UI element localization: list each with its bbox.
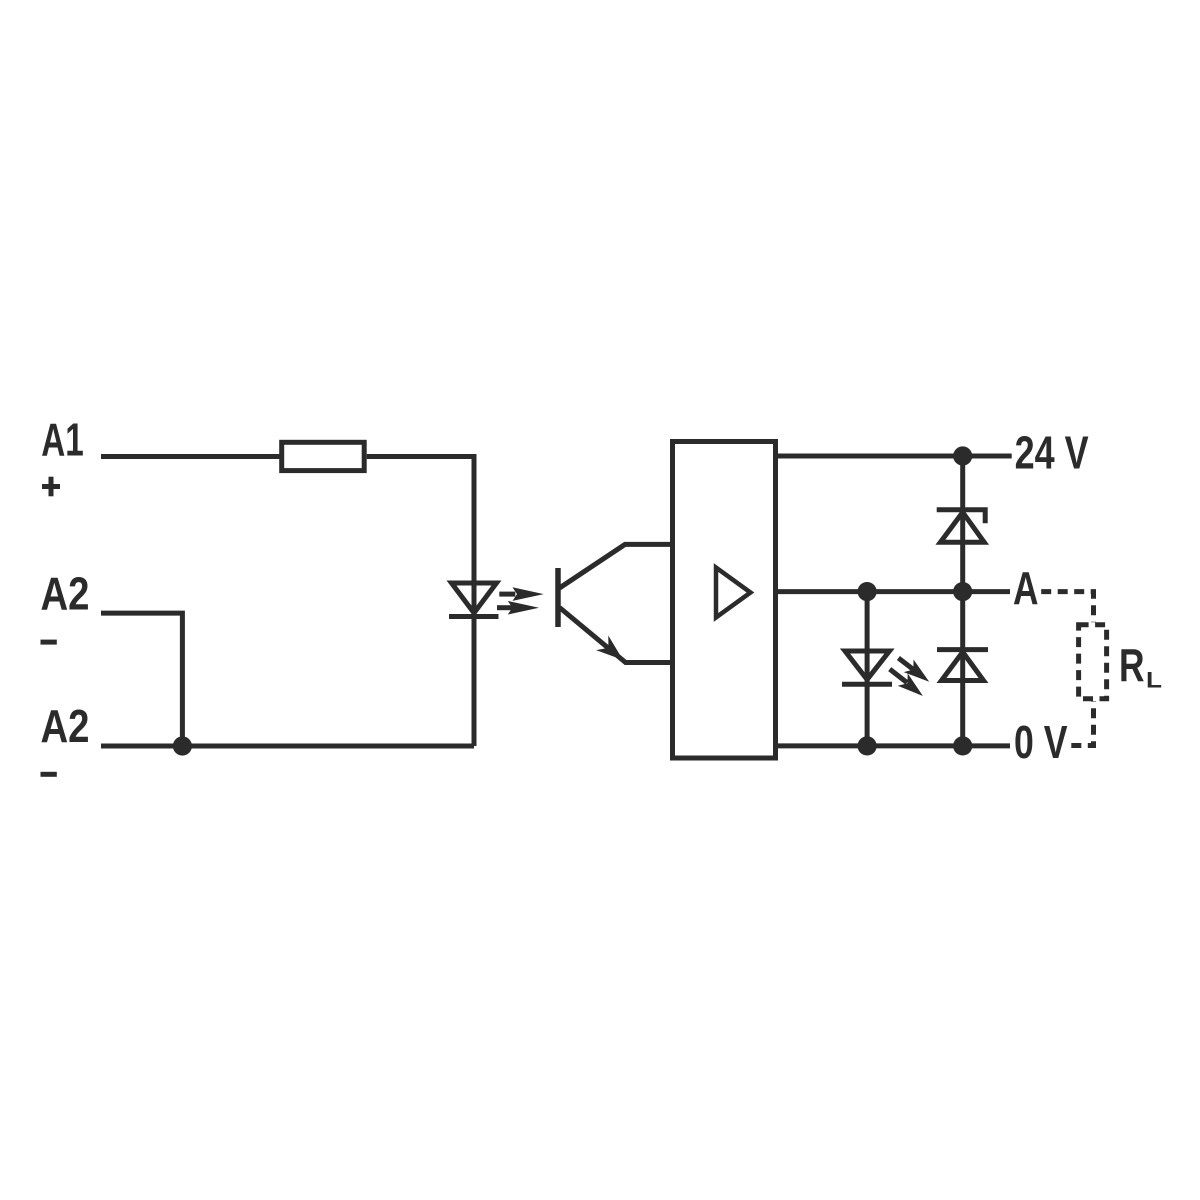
wire A2 upper to junction [101,613,182,746]
status LED D4 triangle [845,651,890,680]
svg-text:A2: A2 [41,700,90,752]
svg-text:0 V: 0 V [1014,716,1068,768]
resistor R1 (input series) [282,442,365,470]
status LED light arrow 1 [898,658,929,682]
wire 24V rail [778,454,1012,459]
phototransistor Q1 emitter with arrow [560,608,671,663]
wire zener column 24V to 0V [960,456,965,746]
polarity mark − (A2 upper) [41,640,57,645]
dashed wire load RL to 0V [1069,701,1094,745]
status LED light arrow 2 [890,669,923,696]
zener diode D2 triangle [940,512,984,542]
optocoupler LED D1 triangle [452,583,497,613]
label RL [1119,639,1162,692]
zener diode D2 cathode bar with hook [937,510,986,524]
svg-text:24 V: 24 V [1015,426,1089,478]
junction A2 [173,736,192,755]
status LED D4 cathode bar [842,682,892,687]
phototransistor Q1 base bar [555,568,561,627]
dashed wire A to load RL [1041,592,1093,623]
phototransistor Q1 collector [560,544,671,588]
svg-text:A2: A2 [41,568,90,620]
junction dot A/LED column [858,582,877,601]
light arrow 2 [497,601,539,615]
junction dot 24V/zener [953,446,972,465]
svg-text:R: R [1119,639,1145,691]
amplifier triangle symbol [716,568,751,618]
optocoupler LED D1 cathode bar [449,614,499,619]
junction dot A/zener column [953,582,972,601]
polarity mark + (A1) [42,477,60,497]
diode D3 triangle [942,652,984,681]
load resistor RL (dashed outline) [1079,625,1107,699]
diode D3 cathode bar [937,647,988,652]
svg-text:A: A [1013,562,1039,614]
wire resistor to opto LED (corner down) [367,457,474,747]
wire 0V rail [778,743,1010,748]
wire A1 to resistor [101,454,280,459]
amplifier block U1 [673,442,776,759]
wire LED column A to 0V [865,592,870,746]
junction dot 0V/LED column [858,736,877,755]
polarity mark − (A2 lower) [41,772,57,777]
svg-text:A1: A1 [41,414,84,466]
wire A2 lower rail [101,744,474,749]
wire output A rail [778,589,1010,594]
junction dot 0V/zener column [953,736,972,755]
svg-text:L: L [1146,667,1162,692]
light arrow 1 [499,587,543,601]
